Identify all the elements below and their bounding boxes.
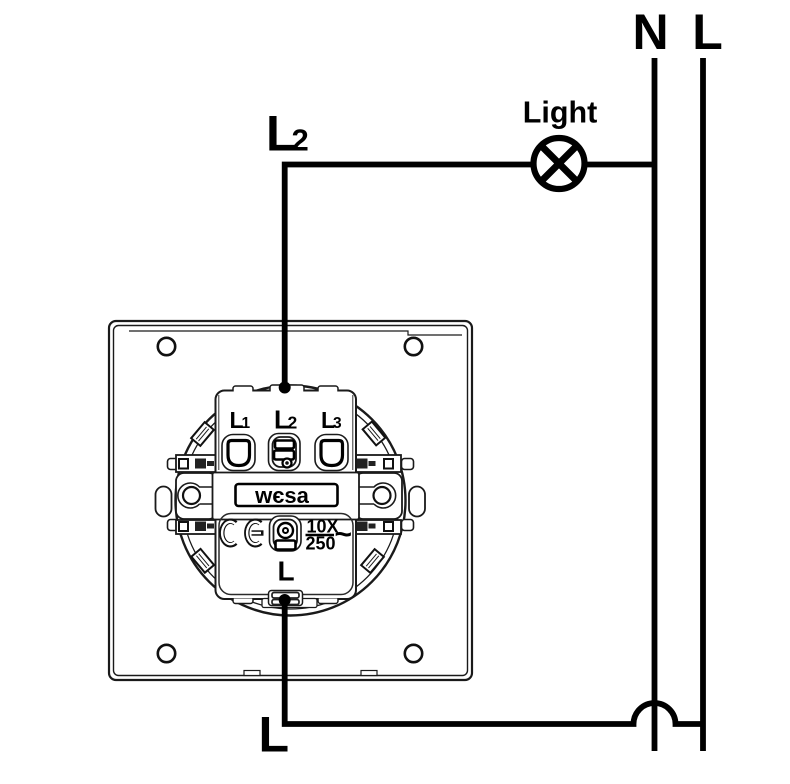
svg-text:L: L — [278, 556, 295, 587]
mechanism ring — [176, 386, 406, 616]
net label N — [632, 4, 668, 60]
CE mark — [222, 521, 264, 545]
mounting hole top-right — [405, 338, 422, 355]
terminal opening L1 — [222, 435, 255, 471]
terminal L (bottom clamp) — [262, 591, 317, 608]
mounting hole bottom-right — [405, 645, 422, 662]
svg-text:wєsa: wєsa — [254, 483, 309, 508]
side slot right — [409, 487, 425, 517]
net label L (top) — [692, 4, 723, 60]
junction dot at switch L terminal — [279, 594, 291, 606]
svg-text:2: 2 — [292, 123, 309, 158]
screw slot bottom-right — [361, 549, 384, 573]
lamp E1 — [534, 138, 585, 189]
terminal label L (bottom) — [278, 556, 295, 587]
wire from L terminal over N to L line — [285, 599, 703, 724]
mounting hole bottom-left — [158, 645, 175, 662]
screw terminal center — [270, 516, 302, 551]
label Light — [523, 96, 598, 130]
junction dot at switch L2 terminal — [279, 382, 291, 394]
side slot left — [156, 487, 172, 517]
net label L2 — [266, 106, 309, 162]
switch plate outer frame — [109, 321, 472, 680]
svg-text:2: 2 — [288, 413, 298, 433]
svg-text:L: L — [259, 707, 290, 763]
svg-text:3: 3 — [333, 415, 342, 432]
claw assembly left — [168, 455, 218, 534]
terminal label L1 — [230, 407, 251, 433]
brand label wesa — [236, 483, 338, 508]
svg-text:1: 1 — [242, 415, 251, 432]
screw slot top-right — [363, 422, 386, 446]
mounting hole top-left — [158, 338, 175, 355]
svg-text:250: 250 — [306, 534, 336, 554]
svg-text:L: L — [692, 4, 723, 60]
screw slot bottom-left — [191, 549, 214, 573]
switch S1 (wall switch, rear view) — [109, 321, 472, 680]
net label L (bottom) — [259, 707, 290, 763]
terminal label L3 — [321, 407, 342, 433]
screw slot top-left — [191, 422, 214, 446]
wire N supply line — [652, 58, 658, 751]
terminal clamp L2 — [269, 434, 301, 471]
wire L supply line — [700, 58, 706, 751]
svg-text:~: ~ — [335, 518, 353, 551]
terminal label L2 — [274, 405, 298, 435]
switch module body — [213, 385, 360, 604]
svg-text:N: N — [632, 4, 668, 60]
svg-text:Light: Light — [523, 96, 598, 130]
wire from L2 terminal to lamp and N — [285, 165, 655, 388]
terminal opening L3 — [315, 435, 348, 471]
rating 10X 250~ — [306, 517, 353, 554]
claw assembly right — [355, 455, 414, 534]
